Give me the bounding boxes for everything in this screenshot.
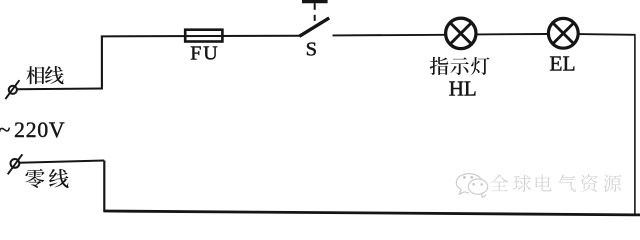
switch S blade xyxy=(299,18,329,36)
wire top run to switch xyxy=(101,35,301,38)
wire right riser xyxy=(634,35,636,214)
wire lamp EL to right riser xyxy=(579,33,636,36)
wire phase terminal to riser xyxy=(17,88,103,91)
watermark text xyxy=(491,174,621,191)
svg-text:HL: HL xyxy=(449,77,477,101)
wire neutral terminal run xyxy=(19,161,104,163)
svg-text:~220V: ~220V xyxy=(0,117,65,142)
label zhishideng (indicator lamp) xyxy=(430,57,490,75)
switch S linkage dashes xyxy=(314,3,316,21)
lamp HL indicator xyxy=(446,18,476,48)
wire bottom return xyxy=(104,211,640,215)
terminal phase line xyxy=(5,80,19,99)
switch S actuator bar xyxy=(302,0,328,3)
wire lamp HL to lamp EL xyxy=(477,33,549,35)
label lingxian (neutral wire) xyxy=(25,169,68,188)
wire left riser xyxy=(101,36,103,90)
svg-text:EL: EL xyxy=(549,51,575,75)
terminal neutral line xyxy=(8,154,23,174)
lamp EL xyxy=(548,18,578,48)
watermark logo xyxy=(456,174,487,198)
wire neutral riser xyxy=(103,161,105,213)
svg-text:FU: FU xyxy=(190,43,219,65)
label xiangxian (phase wire) xyxy=(26,66,63,84)
svg-text:S: S xyxy=(306,39,317,61)
wire switch to lamp HL xyxy=(333,34,446,37)
fuse FU xyxy=(185,30,222,42)
